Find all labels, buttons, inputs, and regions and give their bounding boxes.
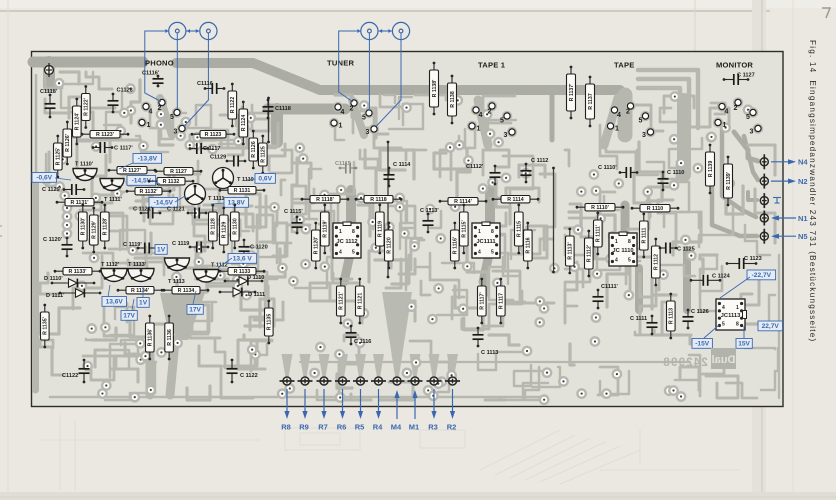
wire between TUNER plugs [379, 29, 392, 33]
svg-text:4: 4 [479, 112, 483, 119]
capacitor C1120' [43, 237, 73, 258]
capacitor C1124 [690, 274, 731, 286]
svg-text:C1111': C1111' [601, 284, 619, 290]
svg-text:1V: 1V [157, 247, 166, 254]
resistor R1129' [90, 207, 99, 254]
arrow to M1 [414, 394, 416, 419]
svg-text:C 1113': C 1113' [420, 208, 439, 214]
resistor R1137 [586, 76, 595, 128]
resistor R1135 [265, 300, 274, 345]
svg-text:R 1114: R 1114 [507, 197, 524, 203]
svg-text:R 1122': R 1122' [84, 98, 90, 116]
svg-text:2: 2 [734, 105, 738, 112]
svg-text:R 1124': R 1124' [75, 113, 81, 131]
capacitor C1111' [593, 284, 619, 309]
svg-text:C 1114: C 1114 [393, 162, 411, 168]
svg-text:4: 4 [149, 109, 153, 116]
svg-text:R2: R2 [447, 423, 457, 432]
svg-text:MONITOR: MONITOR [716, 61, 753, 70]
svg-text:R 1134': R 1134' [131, 288, 149, 294]
svg-text:R 1120: R 1120 [387, 237, 393, 254]
svg-text:C1116': C1116' [142, 71, 160, 77]
svg-text:C 1119: C 1119 [172, 241, 189, 247]
voltage 1V b [137, 298, 149, 308]
svg-text:4: 4 [341, 109, 345, 116]
svg-text:R 1115: R 1115 [517, 221, 523, 237]
TAPE jack pin 3 [642, 127, 656, 139]
svg-text:17V: 17V [123, 313, 135, 320]
svg-text:R 1113: R 1113 [669, 308, 675, 324]
wire (blue signal route) [145, 31, 169, 102]
svg-text:C 1124: C 1124 [712, 274, 731, 280]
resistor R1131 [219, 187, 266, 195]
resistor R1111 [640, 213, 649, 259]
op-amp JC1113 [716, 299, 747, 330]
svg-text:R9: R9 [299, 423, 309, 432]
svg-text:-0,6V: -0,6V [36, 175, 52, 182]
voltage -0,6V [32, 173, 57, 183]
svg-text:R 1118': R 1118' [316, 197, 334, 203]
arrow to R5 [360, 389, 362, 414]
capacitor C1125 [659, 243, 695, 254]
svg-text:4: 4 [478, 250, 481, 256]
wire between PHONO plugs [187, 29, 200, 33]
TAPE 1 jack pin 1 [467, 121, 481, 133]
svg-text:1: 1 [615, 239, 618, 245]
capacitor C1115' [284, 209, 303, 234]
svg-text:R 1116: R 1116 [526, 237, 532, 253]
svg-text:C 1126: C 1126 [691, 309, 709, 315]
arrow to R4 [378, 389, 380, 414]
svg-text:R 1127: R 1127 [170, 169, 187, 175]
capacitor C1112 [521, 158, 549, 183]
transistor T1111' [100, 179, 124, 204]
svg-text:R 1134: R 1134 [178, 288, 195, 294]
svg-text:5: 5 [491, 250, 494, 256]
resistor R1118' [301, 196, 350, 204]
resistor R1130' [79, 204, 88, 250]
resistor R1128' [101, 204, 110, 250]
resistor R1114' [439, 198, 488, 206]
PHONO DIN plug symbol left [165, 22, 186, 39]
svg-text:C 1121': C 1121' [133, 207, 153, 213]
svg-text:TAPE 1: TAPE 1 [478, 61, 506, 70]
svg-text:C 1123: C 1123 [744, 256, 762, 262]
edge pad R9 [298, 377, 313, 385]
svg-text:D 1111: D 1111 [248, 292, 265, 298]
svg-text:3: 3 [504, 132, 508, 139]
TAPE 1 jack pin 4 [471, 105, 483, 119]
resistor R1124' [73, 98, 82, 146]
svg-text:C 1117': C 1117' [114, 146, 133, 152]
capacitor C1116' [142, 71, 164, 88]
svg-text:C1129: C1129 [210, 155, 226, 161]
resistor R1112 [652, 238, 661, 287]
svg-text:R5: R5 [355, 423, 365, 432]
wire blue -22,7V to JC1113 [720, 277, 750, 298]
svg-text:R 1121: R 1121 [358, 293, 364, 310]
resistor R1121' [337, 278, 346, 325]
svg-text:R4: R4 [373, 423, 383, 432]
svg-text:C 1119': C 1119' [123, 242, 142, 248]
resistor R1123 [191, 131, 236, 139]
capacitor C1122' [62, 359, 90, 384]
op-amp JC1111 [472, 222, 500, 258]
svg-text:5: 5 [170, 114, 174, 121]
voltage 1V a [155, 245, 167, 255]
arrow N2 [771, 180, 791, 182]
resistor R1128 [209, 204, 218, 250]
wire (blue leader) [55, 178, 71, 180]
svg-text:R 1117: R 1117 [499, 293, 505, 309]
svg-text:R 1131: R 1131 [234, 188, 251, 194]
svg-text:T 1113: T 1113 [168, 279, 185, 285]
svg-text:242998: 242998 [662, 357, 708, 369]
svg-text:R 1138': R 1138' [432, 80, 438, 98]
svg-text:C1118': C1118' [40, 89, 58, 95]
resistor R1113 bottom [667, 293, 676, 340]
svg-text:D 1110: D 1110 [247, 275, 264, 281]
wire (blue leader) [246, 179, 255, 180]
PHONO jack pin 3 [174, 123, 188, 135]
svg-text:C1115: C1115 [335, 161, 351, 167]
svg-text:R 1119': R 1119' [323, 220, 329, 237]
capacitor C1112' [466, 164, 501, 185]
voltage 0,6V [255, 174, 275, 184]
voltage 15V [736, 339, 752, 349]
capacitor C1129' [42, 184, 85, 195]
svg-text:4: 4 [615, 258, 618, 264]
arrow N5 [776, 235, 796, 237]
svg-text:D 1110': D 1110' [44, 276, 63, 282]
PHONO jack pin 5 [170, 107, 182, 121]
svg-text:R 1132': R 1132' [139, 189, 157, 195]
svg-text:2: 2 [350, 106, 354, 113]
svg-text:13,8V: 13,8V [228, 200, 246, 207]
svg-text:R 1135': R 1135' [43, 317, 49, 335]
transistor T1110 [213, 168, 254, 189]
resistor R1133 [219, 268, 266, 276]
transistor T1112 [194, 263, 228, 283]
svg-text:C 1129': C 1129' [42, 187, 62, 193]
TAPE 1 jack pin 3 [504, 127, 518, 139]
wire (blue signal route) [176, 33, 178, 109]
ground symbol [773, 198, 781, 204]
TUNER DIN plug symbol right [392, 22, 409, 39]
resistor R1135' [41, 304, 50, 349]
op-amp JC1112 [333, 222, 361, 258]
resistor R1134' [117, 287, 164, 295]
svg-text:8: 8 [491, 229, 494, 235]
wire blue -15V to JC1113 [704, 325, 719, 338]
svg-text:C 1112: C 1112 [531, 158, 548, 164]
capacitor C1129 [210, 155, 246, 167]
svg-text:C 1115': C 1115' [284, 209, 303, 215]
resistor R1125' [54, 135, 63, 179]
svg-text:0,6V: 0,6V [258, 176, 272, 183]
capacitor C1110 [658, 170, 685, 191]
capacitor C1120 [239, 239, 268, 260]
resistor R1133' [54, 268, 102, 276]
capacitor C1116 bottom [346, 325, 372, 346]
svg-text:R 1139: R 1139 [708, 161, 714, 178]
svg-text:R 1118: R 1118 [370, 197, 387, 203]
resistor R1120' [312, 222, 321, 270]
svg-text:5: 5 [628, 258, 631, 264]
svg-text:R 1117': R 1117' [480, 292, 486, 309]
voltage -13,8V [133, 154, 162, 164]
svg-text:R 1125: R 1125 [261, 146, 267, 163]
svg-text:5: 5 [500, 118, 504, 125]
svg-text:T 1111: T 1111 [208, 196, 225, 202]
svg-text:1: 1 [339, 229, 342, 235]
wire (blue leader) [218, 258, 232, 268]
svg-text:D 1111': D 1111' [46, 293, 65, 299]
MONITOR jack pin 1 [713, 117, 727, 129]
svg-text:4: 4 [617, 112, 621, 119]
op-amp JC1110 [609, 232, 637, 266]
svg-text:1: 1 [478, 229, 481, 235]
wire (blue leader) [108, 285, 110, 297]
svg-text:R 1113': R 1113' [568, 242, 574, 259]
TAPE 1 jack pin 5 [500, 111, 512, 125]
resistor R1116' [451, 222, 460, 270]
capacitor C1110' [598, 165, 638, 178]
svg-text:8: 8 [352, 229, 355, 235]
resistor R1138 [448, 75, 457, 125]
capacitor C1113 bottom [473, 327, 499, 356]
svg-text:R 1112': R 1112' [587, 245, 593, 262]
diode D1110 [224, 275, 265, 285]
svg-text:3: 3 [750, 129, 754, 136]
capacitor C1111 [630, 315, 658, 336]
capacitor C1121 [167, 207, 207, 219]
svg-text:R 1131': R 1131' [70, 200, 88, 206]
svg-text:3: 3 [366, 129, 370, 136]
MONITOR jack pin 5 [746, 107, 758, 121]
capacitor C1127 [723, 73, 755, 86]
edge pad R8 [280, 377, 295, 385]
wire link 3 [552, 167, 555, 274]
arrow N1 [776, 217, 796, 219]
svg-text:R 1127': R 1127' [123, 168, 141, 174]
svg-text:1: 1 [339, 123, 343, 130]
PHONO DIN plug symbol right [200, 22, 217, 39]
TUNER jack pin 1 [329, 118, 343, 130]
svg-text:C 1122: C 1122 [240, 373, 258, 379]
resistor R1124 [239, 101, 248, 146]
TUNER jack pin 2 [349, 98, 359, 113]
svg-text:1: 1 [477, 126, 481, 133]
capacitor C1123 [726, 256, 762, 269]
svg-text:M4: M4 [391, 423, 402, 432]
svg-text:C 1120: C 1120 [250, 245, 268, 251]
svg-text:R 1119: R 1119 [378, 221, 384, 237]
PHONO jack pin 2 [157, 97, 167, 112]
svg-text:5: 5 [722, 322, 725, 328]
svg-text:T 1111': T 1111' [104, 197, 122, 203]
arrow to R9 [304, 389, 306, 414]
svg-text:R 1130: R 1130 [233, 218, 239, 235]
voltage 13,6V a [228, 254, 257, 264]
svg-text:4: 4 [725, 109, 729, 116]
svg-text:5: 5 [362, 115, 366, 122]
capacitor C1117 [189, 143, 221, 154]
edge pad R2 [445, 377, 460, 385]
svg-text:JC 1112: JC 1112 [336, 239, 357, 245]
resistor R1132 [148, 178, 195, 186]
edge pad N4 [760, 154, 768, 169]
svg-text:TAPE: TAPE [614, 61, 635, 70]
svg-text:C1118: C1118 [275, 106, 291, 112]
transistor T1113' [128, 262, 154, 282]
MONITOR jack pin 4 [717, 101, 729, 115]
svg-text:R8: R8 [281, 423, 291, 432]
svg-text:R 1112: R 1112 [654, 254, 660, 270]
resistor R1134 [163, 287, 210, 295]
svg-text:R 1121': R 1121' [339, 292, 345, 310]
svg-text:R 1136': R 1136' [148, 329, 154, 347]
resistor R1116 [524, 222, 533, 270]
capacitor C1118' [40, 89, 58, 118]
svg-text:JC1111: JC1111 [476, 239, 496, 245]
svg-text:R 1120': R 1120' [314, 237, 320, 255]
diode D1110' [44, 276, 95, 287]
resistor R1118 [355, 196, 403, 204]
svg-text:1: 1 [147, 122, 151, 129]
svg-text:-22,7V: -22,7V [752, 272, 772, 279]
capacitor C1113' [420, 208, 439, 233]
svg-text:5: 5 [639, 118, 643, 125]
svg-text:-13,8V: -13,8V [138, 156, 158, 163]
wire (blue leader) [142, 286, 144, 297]
PHONO jack pin 4 [141, 101, 153, 115]
resistor R1131' [56, 199, 104, 207]
resistor R1119 [376, 204, 385, 255]
resistor R1119' [321, 204, 330, 255]
voltage 13,6V b [102, 297, 127, 307]
voltage 13,8V [224, 198, 249, 208]
svg-text:Dual: Dual [712, 354, 736, 366]
voltage -22,7V [747, 270, 776, 280]
resistor R1126' [63, 121, 72, 166]
svg-text:5: 5 [746, 114, 750, 121]
TUNER DIN plug symbol left [357, 22, 378, 39]
svg-text:17V: 17V [189, 307, 201, 314]
svg-text:R6: R6 [337, 423, 347, 432]
resistor R1139' [724, 156, 733, 207]
wire link [387, 141, 390, 279]
svg-text:C 1120': C 1120' [43, 237, 63, 243]
wire (blue signal route) [184, 33, 208, 127]
svg-text:N5: N5 [798, 232, 808, 241]
svg-text:R 1129: R 1129 [222, 222, 228, 239]
svg-text:T 1110': T 1110' [75, 162, 94, 168]
resistor R1122 [228, 83, 237, 128]
voltage 17V b [121, 311, 137, 321]
wire (blue leader) [211, 203, 224, 204]
PCB board 243 731 outline [32, 52, 784, 407]
wire blue 15V to JC1113 [743, 326, 745, 338]
svg-text:C 1127: C 1127 [737, 73, 755, 79]
svg-text:C 1113: C 1113 [481, 350, 498, 356]
svg-text:13,6V: 13,6V [106, 299, 124, 306]
svg-text:PHONO: PHONO [145, 59, 174, 68]
svg-text:M1: M1 [409, 423, 419, 432]
resistor R1111' [594, 212, 603, 256]
svg-text:R 1135: R 1135 [267, 314, 273, 331]
edge pad R6 [335, 377, 350, 385]
voltage -15V [692, 339, 712, 349]
svg-text:R 1126': R 1126' [65, 134, 71, 152]
capacitor C1128 [108, 88, 133, 114]
resistor R1110' [576, 204, 625, 212]
edge pad N1 [760, 211, 768, 226]
TUNER jack pin 4 [333, 102, 345, 116]
edge pad M1 [408, 377, 423, 385]
svg-text:1: 1 [736, 305, 739, 311]
resistor R1126 [249, 130, 258, 170]
wire (blue leader) [175, 196, 185, 202]
svg-text:1: 1 [615, 126, 619, 133]
TUNER jack pin 5 [362, 108, 374, 122]
svg-text:8: 8 [736, 322, 739, 328]
resistor R1138' [430, 62, 439, 116]
svg-text:R 1139': R 1139' [726, 172, 732, 190]
resistor R1125 [259, 135, 268, 175]
transistor T1113 [165, 258, 190, 285]
svg-text:R 1123: R 1123 [205, 132, 222, 138]
svg-text:R 1137': R 1137' [569, 84, 575, 102]
arrow to R2 [452, 389, 454, 414]
voltage 22,7V [758, 321, 783, 331]
svg-text:R 1110': R 1110' [591, 205, 609, 211]
capacitor C1119' [123, 242, 157, 254]
svg-text:13,6 V: 13,6 V [233, 256, 253, 263]
resistor R1123' [81, 131, 130, 139]
edge pad N2 [760, 174, 768, 189]
TUNER jack pin 3 [366, 124, 380, 136]
resistor R1115 [515, 204, 524, 255]
svg-text:R 1124: R 1124 [241, 115, 247, 132]
resistor R1132' [126, 188, 172, 196]
edge pad R5 [353, 377, 368, 385]
svg-text:22,7V: 22,7V [762, 323, 780, 330]
svg-text:5: 5 [352, 250, 355, 256]
voltage -14,5V b [149, 198, 178, 208]
svg-text:R3: R3 [428, 423, 438, 432]
resistor R1117' [478, 278, 487, 325]
svg-text:N2: N2 [798, 177, 808, 186]
svg-text:T 1110: T 1110 [237, 177, 254, 183]
svg-text:R 1132: R 1132 [163, 179, 180, 185]
resistor R1113' [566, 228, 575, 275]
edge pad M4 [390, 377, 405, 385]
resistor R1120 [385, 222, 394, 270]
edge pad GND [760, 193, 768, 208]
resistor R1112' [585, 230, 594, 278]
svg-text:1: 1 [723, 122, 727, 129]
svg-text:T 1112: T 1112 [211, 263, 228, 269]
capacitor C1126 [683, 309, 709, 330]
svg-text:C1122': C1122' [62, 373, 80, 379]
resistor R1122' [82, 85, 91, 129]
svg-text:C 1111: C 1111 [630, 316, 647, 322]
resistor R1114 [492, 196, 540, 204]
svg-text:C 1121: C 1121 [167, 207, 185, 213]
svg-text:15V: 15V [738, 341, 750, 348]
arrow to R6 [342, 389, 344, 414]
